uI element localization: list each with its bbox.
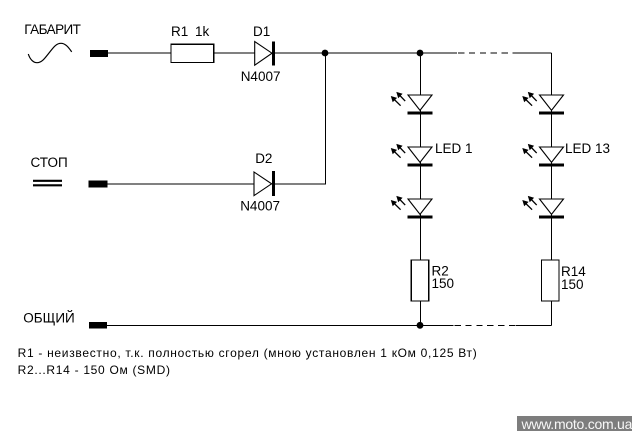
svg-text:ОБЩИЙ: ОБЩИЙ	[23, 311, 74, 326]
svg-text:R2...R14 - 150 Ом (SMD): R2...R14 - 150 Ом (SMD)	[18, 363, 171, 377]
svg-text:150: 150	[561, 277, 584, 292]
svg-text:N4007: N4007	[240, 199, 280, 214]
svg-text:LED 13: LED 13	[565, 141, 610, 156]
svg-text:N4007: N4007	[241, 69, 281, 84]
svg-text:R1 - неизвестно, т.к. полность: R1 - неизвестно, т.к. полностью сгорел (…	[18, 346, 478, 360]
svg-text:СТОП: СТОП	[31, 155, 68, 170]
svg-text:1k: 1k	[195, 24, 210, 39]
svg-text:150: 150	[432, 276, 455, 291]
svg-text:www.moto.com.ua: www.moto.com.ua	[521, 416, 632, 431]
svg-text:ГАБАРИТ: ГАБАРИТ	[24, 22, 80, 37]
svg-text:R1: R1	[171, 24, 188, 39]
svg-text:D1: D1	[253, 24, 270, 39]
svg-text:LED 1: LED 1	[435, 141, 473, 156]
svg-text:D2: D2	[255, 151, 272, 166]
